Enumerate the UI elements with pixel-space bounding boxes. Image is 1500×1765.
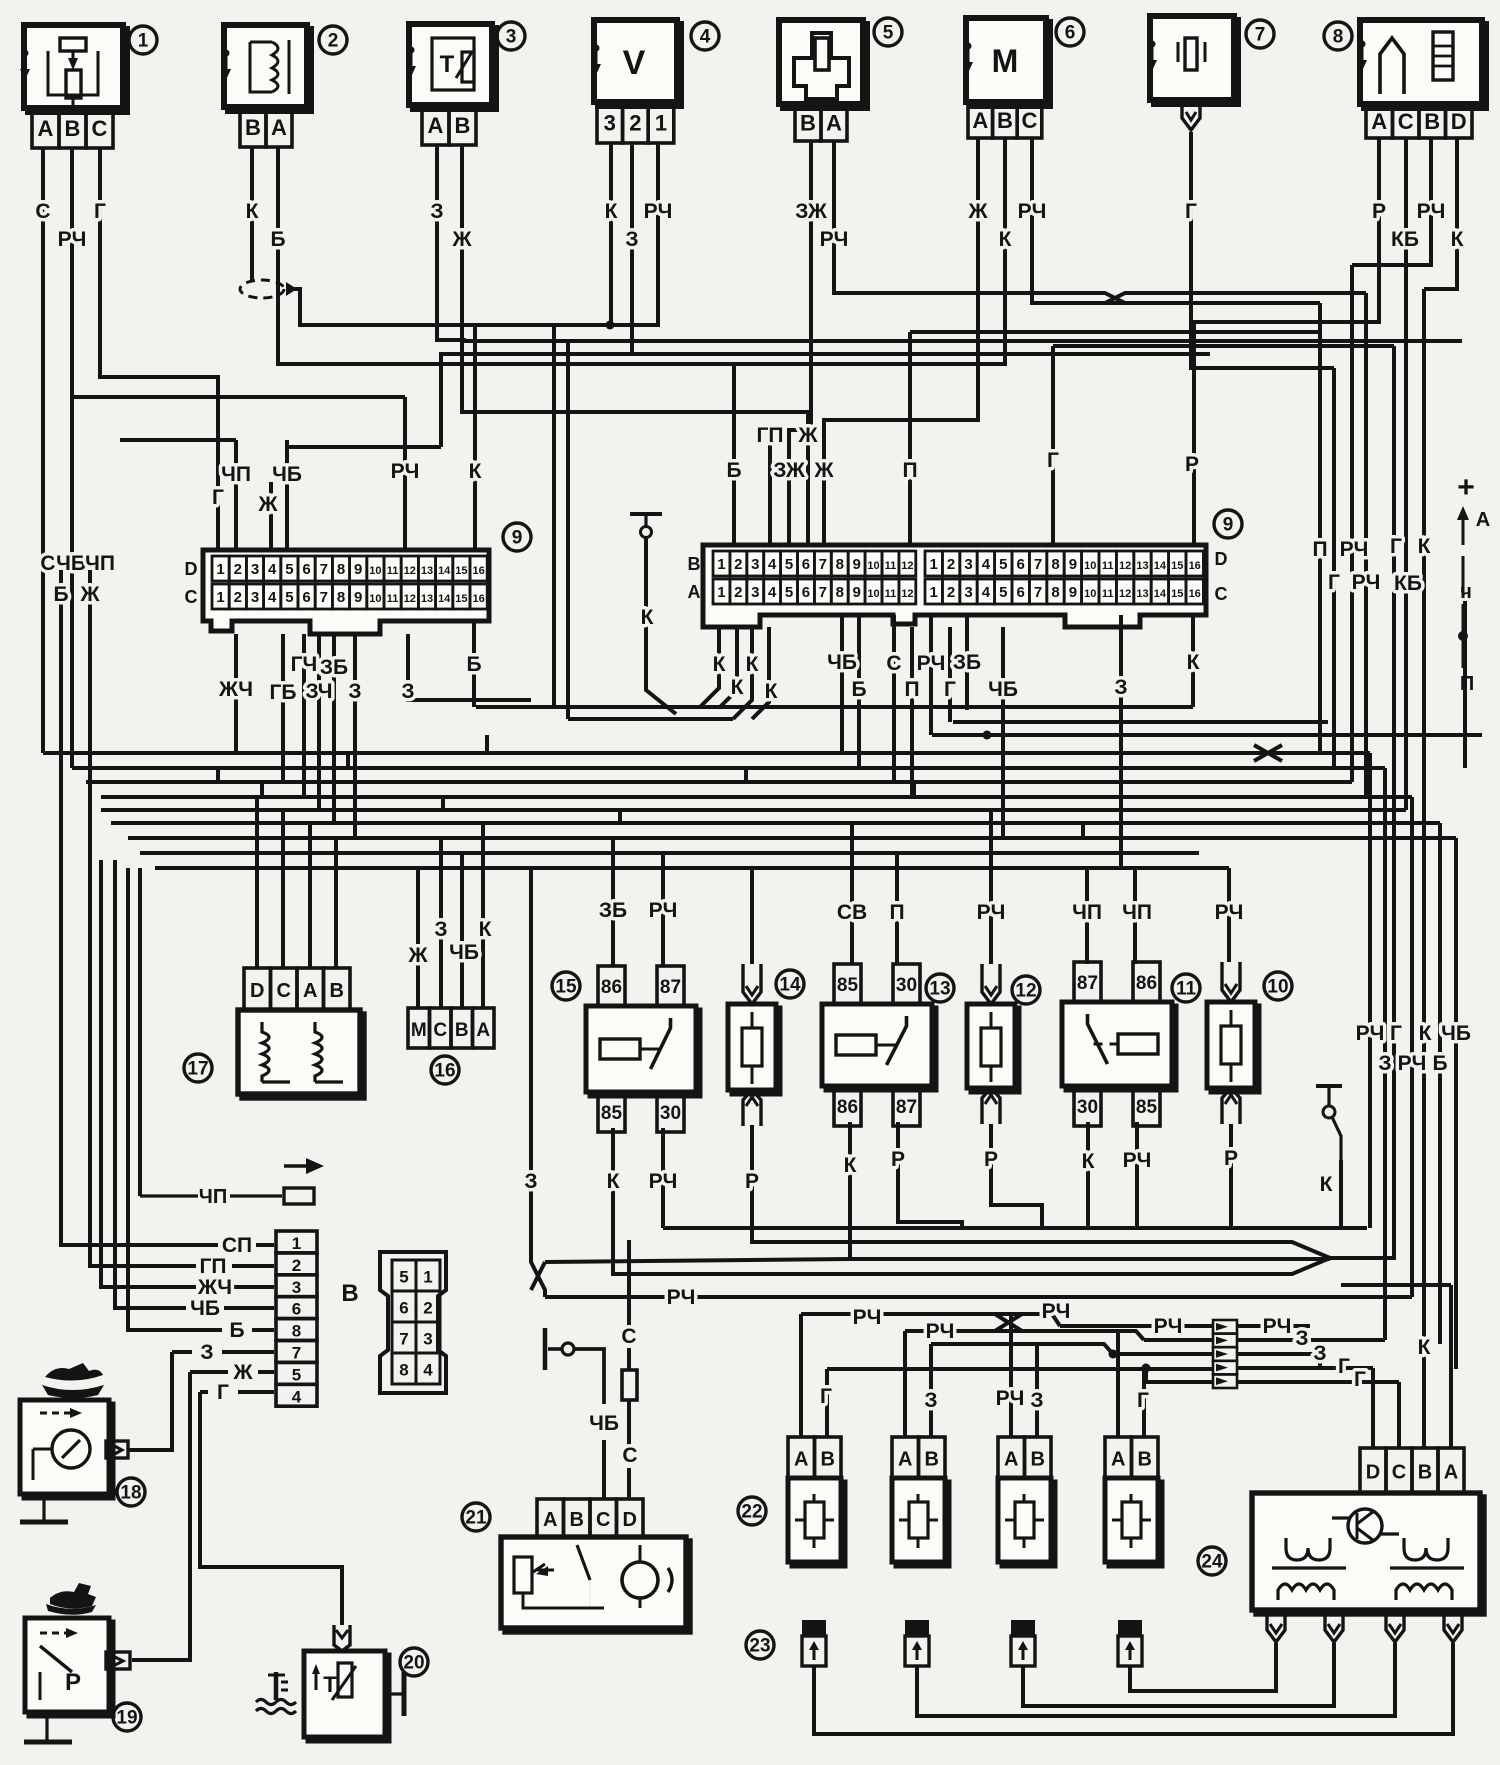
svg-text:ЧП: ЧП [85, 552, 115, 575]
svg-text:2: 2 [234, 589, 242, 606]
svg-text:87: 87 [1077, 973, 1098, 994]
svg-text:15: 15 [1171, 560, 1183, 572]
wire РЧ-l [403, 397, 407, 550]
diagnostic tap ЧП [140, 1186, 314, 1208]
svg-text:А: А [428, 113, 444, 138]
svg-text:24: 24 [1201, 1552, 1223, 1573]
wire З from 4-2 [441, 143, 632, 447]
t Кh2 [568, 717, 733, 721]
svg-text:11: 11 [1176, 979, 1197, 1000]
svg-text:Ж: Ж [452, 228, 473, 251]
svg-text:А: А [1111, 1449, 1125, 1471]
v РЧ lower2 [1410, 797, 1414, 1297]
f РЧ 10 [1227, 868, 1231, 962]
spark plug 23-2 [905, 1620, 929, 1666]
svg-text:5: 5 [292, 1365, 301, 1384]
svg-text:3: 3 [423, 1330, 432, 1349]
svg-text:17: 17 [187, 1059, 208, 1080]
jc right1 [1237, 1324, 1310, 1328]
f 16 wires [416, 868, 420, 1008]
svg-text:А: А [688, 582, 701, 602]
ground of 19 [24, 1712, 72, 1742]
svg-text:Г: Г [1338, 1355, 1350, 1378]
svg-text:Г: Г [1390, 1022, 1402, 1045]
svg-text:7: 7 [292, 1343, 301, 1362]
callout 11 [1172, 974, 1200, 1002]
sensor 3 (coolant temperature sensor) [406, 24, 496, 109]
f ЧП 11a [1085, 868, 1089, 964]
fuse above 21 [622, 1240, 637, 1499]
svg-text:8: 8 [292, 1322, 301, 1341]
svg-text:РЧ: РЧ [926, 1320, 955, 1343]
bus y797 [101, 795, 1412, 799]
svg-text:6: 6 [1017, 584, 1025, 601]
ground of 18 [20, 1494, 68, 1522]
svg-text:Г: Г [94, 200, 106, 223]
svg-text:15: 15 [1171, 588, 1183, 600]
b 14 [752, 1125, 1330, 1258]
svg-text:2: 2 [292, 1256, 301, 1275]
v center 568 [566, 341, 570, 719]
svg-text:6: 6 [1065, 23, 1076, 44]
svg-text:РЧ: РЧ [58, 228, 87, 251]
svg-text:ГП: ГП [200, 1255, 227, 1278]
bus y341 [466, 340, 1462, 341]
ignition switch feed (К) [630, 514, 662, 614]
c24 B [1422, 1347, 1426, 1448]
lv 89b [128, 868, 222, 1330]
t ЧБ3 [1001, 627, 1005, 838]
svg-text:14: 14 [779, 975, 801, 996]
svg-text:14: 14 [438, 593, 451, 605]
connector pins of sensor 4 [597, 102, 674, 143]
svg-text:4: 4 [700, 27, 711, 48]
svg-text:К: К [1418, 1336, 1431, 1359]
crossover X mid band [1254, 745, 1282, 761]
flow arrow [284, 1158, 324, 1174]
svg-text:К: К [1082, 1150, 1095, 1173]
bus y768 [72, 766, 1385, 770]
svg-text:8: 8 [337, 561, 345, 578]
step j [346, 753, 350, 768]
svg-text:ГБ: ГБ [270, 681, 297, 704]
callout 17 [184, 1054, 212, 1082]
svg-text:85: 85 [837, 975, 859, 996]
wire ГП [768, 435, 772, 545]
svg-text:Б: Б [851, 678, 866, 701]
connector 8-pin (В) [380, 1252, 446, 1393]
f 16 w4 [481, 823, 485, 1008]
wire Ж-l [269, 482, 273, 550]
t К2 [733, 627, 752, 719]
svg-text:РЧ: РЧ [1352, 571, 1381, 594]
svg-text:4: 4 [423, 1361, 433, 1380]
fuse 10 [1207, 962, 1259, 1124]
h К left [545, 1259, 850, 1262]
svg-text:9: 9 [1069, 556, 1077, 573]
svg-text:З: З [1378, 1052, 1391, 1075]
svg-text:К: К [479, 918, 492, 941]
step h [1081, 823, 1085, 838]
svg-text:СП: СП [222, 1234, 252, 1257]
svg-text:10: 10 [867, 588, 879, 600]
svg-text:РЧ: РЧ [644, 200, 673, 223]
lv strip Ж [190, 1370, 228, 1374]
svg-text:7: 7 [1034, 556, 1042, 573]
svg-text:А: А [1476, 509, 1490, 531]
svg-text:В: В [341, 1280, 358, 1307]
connector pins of device 8 [1366, 104, 1472, 138]
svg-text:D: D [1451, 109, 1467, 134]
svg-text:V: V [623, 44, 646, 82]
svg-text:ЖЧ: ЖЧ [218, 678, 253, 701]
svg-text:Г: Г [1137, 1389, 1149, 1412]
svg-text:З: З [924, 1389, 937, 1412]
svg-text:С: С [596, 1509, 610, 1531]
t К3 [1191, 615, 1195, 707]
svg-text:С: С [1392, 1462, 1406, 1484]
svg-text:РЧ: РЧ [1398, 1052, 1427, 1075]
svg-text:ГП: ГП [757, 424, 784, 447]
lv 63c [234, 1285, 274, 1289]
step f [744, 768, 748, 782]
jc left2 [1144, 1338, 1213, 1342]
svg-text:7: 7 [1255, 25, 1266, 46]
svg-text:11: 11 [387, 565, 399, 577]
spark plug 23-4 [1118, 1620, 1142, 1666]
svg-text:23: 23 [749, 1636, 770, 1657]
svg-text:8: 8 [399, 1361, 408, 1380]
svg-text:К: К [1419, 1022, 1432, 1045]
svg-text:5: 5 [399, 1268, 408, 1287]
svg-text:РЧ: РЧ [391, 460, 420, 483]
throttle unit 21 [501, 1499, 690, 1632]
injector connector 22-4 [1105, 1437, 1162, 1566]
step c [260, 782, 264, 797]
lv 76c [224, 1306, 274, 1310]
wire h346 [1053, 344, 1394, 348]
svg-text:З: З [1295, 1327, 1308, 1350]
svg-text:РЧ: РЧ [649, 899, 678, 922]
svg-text:К: К [1187, 651, 1200, 674]
svg-text:К: К [607, 1170, 620, 1193]
svg-text:ЧБ: ЧБ [827, 651, 857, 674]
svg-text:87: 87 [896, 1097, 917, 1118]
svg-text:+: + [1457, 471, 1475, 504]
callout 5 [874, 18, 902, 46]
f ЧП 11b [1133, 868, 1137, 964]
injector connector 22-2 [892, 1437, 949, 1566]
svg-text:К: К [731, 676, 744, 699]
inj bus3 [931, 1344, 1213, 1354]
svg-text:РЧ: РЧ [667, 1286, 696, 1309]
step b [216, 768, 220, 782]
svg-text:В: В [570, 1509, 584, 1531]
svg-text:1: 1 [138, 31, 149, 52]
sp2 [917, 1643, 1395, 1716]
connector pins of sensor 5 [795, 104, 847, 141]
sensor 2 (crankshaft position sensor) [221, 25, 311, 111]
callout 24 [1198, 1547, 1226, 1575]
ECU connector block 9 (right) [688, 545, 1228, 627]
svg-text:С: С [185, 587, 198, 607]
v Б lower [1438, 823, 1442, 1344]
wire РЧ from 5А [834, 141, 1105, 293]
svg-text:13: 13 [1136, 560, 1148, 572]
svg-text:4: 4 [768, 584, 777, 601]
svg-text:А: А [1004, 1449, 1018, 1471]
svg-text:7: 7 [819, 584, 827, 601]
svg-text:Б: Б [53, 583, 68, 606]
svg-text:РЧ: РЧ [1018, 200, 1047, 223]
svg-text:8: 8 [337, 589, 345, 606]
svg-text:С: С [886, 652, 901, 675]
v center 554 [552, 325, 556, 707]
svg-text:30: 30 [896, 975, 917, 996]
f 17 C [281, 810, 285, 968]
spark plug 23-3 [1011, 1620, 1035, 1666]
wire КБ from 8С [1404, 138, 1408, 810]
sensor 4 (vehicle speed sensor) [591, 20, 681, 106]
connector 16 pins [408, 1008, 494, 1048]
inj v2b [929, 1344, 933, 1437]
bus y810 [101, 808, 1406, 812]
svg-text:В: В [688, 554, 701, 574]
svg-text:7: 7 [320, 589, 328, 606]
inj v1a [799, 1314, 803, 1437]
svg-text:7: 7 [1034, 584, 1042, 601]
svg-text:З: З [524, 1170, 537, 1193]
svg-text:Г: Г [1185, 200, 1197, 223]
svg-text:З: З [1114, 676, 1127, 699]
wire РЧ-l2 [72, 395, 405, 399]
svg-text:К: К [765, 680, 778, 703]
wire РЧ from 6С [1032, 138, 1125, 303]
svg-text:З: З [625, 228, 638, 251]
v З crossing [531, 1262, 545, 1290]
v К r [1422, 289, 1426, 1347]
svg-text:1: 1 [216, 561, 224, 578]
svg-text:Р: Р [984, 1148, 998, 1171]
svg-text:8: 8 [1333, 27, 1344, 48]
c24 A [1449, 1285, 1453, 1448]
t Г2 [948, 627, 952, 722]
lv 89c [252, 1328, 274, 1332]
svg-text:7: 7 [819, 556, 827, 573]
wire Ж from 6А [824, 138, 978, 545]
svg-text:85: 85 [1136, 1097, 1158, 1118]
lower h1228 [663, 1226, 1367, 1230]
svg-text:ЧБ: ЧБ [272, 463, 302, 486]
lower РЧ bus [545, 1295, 1412, 1299]
svg-text:В: В [1031, 1449, 1045, 1471]
svg-text:В: В [1424, 109, 1440, 134]
svg-text:Р: Р [1185, 453, 1199, 476]
svg-text:ЧБ: ЧБ [56, 552, 86, 575]
jc right5 [1237, 1380, 1399, 1384]
b switch [1339, 1160, 1343, 1228]
svg-text:В: В [245, 115, 261, 140]
svg-text:К: К [713, 653, 726, 676]
svg-text:К: К [469, 460, 482, 483]
lv strip Г2 [238, 1390, 274, 1394]
bus y782 [86, 780, 1352, 784]
svg-text:С: С [40, 552, 55, 575]
f СВ 13 [850, 823, 854, 964]
bus y735 [932, 733, 1482, 737]
svg-text:3: 3 [964, 556, 972, 573]
svg-text:РЧ: РЧ [996, 1387, 1025, 1410]
ground of 20 [385, 1672, 404, 1716]
lv strip З2 [222, 1350, 274, 1354]
step g [912, 782, 916, 797]
jc right3 [1237, 1354, 1320, 1369]
fuse 12 [967, 964, 1019, 1124]
svg-text:З: З [1313, 1342, 1326, 1365]
svg-text:16: 16 [1189, 588, 1201, 600]
bus y722 [953, 720, 1328, 724]
svg-text:2: 2 [734, 584, 742, 601]
svg-text:РЧ: РЧ [820, 228, 849, 251]
svg-text:Ж: Ж [968, 200, 989, 223]
svg-text:30: 30 [660, 1103, 681, 1124]
svg-text:11: 11 [885, 588, 897, 600]
injector connector 22-1 [788, 1437, 845, 1566]
svg-text:Г: Г [1328, 571, 1340, 594]
callout 6 [1056, 18, 1084, 46]
inj bus4 [827, 1367, 1213, 1371]
svg-text:7: 7 [399, 1330, 408, 1349]
callout 14 [776, 970, 804, 998]
v З left of 15 [531, 868, 545, 1297]
svg-text:ЗБ: ЗБ [599, 899, 627, 922]
svg-text:18: 18 [120, 1483, 141, 1504]
svg-text:А: А [476, 1020, 490, 1041]
wire К from 4-3 [475, 143, 611, 550]
svg-text:РЧ: РЧ [1154, 1315, 1183, 1338]
svg-text:З: З [434, 918, 447, 941]
svg-text:5: 5 [999, 556, 1007, 573]
svg-text:5: 5 [785, 556, 793, 573]
svg-text:4: 4 [982, 556, 991, 573]
svg-text:14: 14 [1154, 588, 1167, 600]
svg-text:10: 10 [1084, 560, 1096, 572]
svg-text:М: М [992, 43, 1019, 79]
svg-text:К: К [746, 653, 759, 676]
injector connector 22-3 [998, 1437, 1055, 1566]
svg-text:2: 2 [629, 111, 641, 136]
svg-text:ЧБ: ЧБ [1441, 1022, 1471, 1045]
lv 102b [138, 868, 142, 1196]
svg-text:8: 8 [1051, 556, 1059, 573]
step a [485, 735, 489, 753]
v РЧ r [1350, 265, 1354, 782]
t ГЧ [302, 634, 306, 797]
connector pins of sensor 2 [240, 107, 292, 147]
svg-text:С: С [1398, 109, 1414, 134]
t З2 [408, 634, 531, 700]
svg-text:12: 12 [404, 593, 416, 605]
lv 90 [90, 570, 196, 1266]
svg-text:5: 5 [883, 23, 894, 44]
svg-text:16: 16 [1189, 560, 1201, 572]
svg-text:К: К [999, 228, 1012, 251]
svg-text:РЧ: РЧ [1417, 200, 1446, 223]
svg-text:К: К [1451, 228, 1464, 251]
callout 2 [319, 26, 347, 54]
callout 10 [1264, 972, 1292, 1000]
svg-text:30: 30 [1077, 1097, 1098, 1118]
svg-text:4: 4 [268, 589, 277, 606]
c24 C [1397, 1382, 1401, 1448]
svg-text:З: З [200, 1341, 213, 1364]
callout 12 [1012, 976, 1040, 1004]
callout 16 [431, 1056, 459, 1084]
icon above 19 [46, 1583, 96, 1615]
svg-text:М: М [411, 1020, 427, 1041]
svg-text:A: A [38, 116, 54, 141]
svg-text:Г: Г [1354, 1368, 1366, 1391]
wire C from 1A [41, 148, 45, 753]
svg-text:Б: Б [229, 1319, 244, 1342]
svg-text:D: D [1366, 1462, 1380, 1484]
svg-text:Ж: Ж [814, 459, 835, 482]
b 13-86 [850, 1122, 1330, 1259]
svg-text:ЗЖ: ЗЖ [795, 200, 828, 223]
svg-text:Ж: Ж [233, 1361, 254, 1384]
b 15-30 [661, 1128, 665, 1228]
inj v3a [1009, 1314, 1013, 1437]
junction connector (5-way) [1213, 1320, 1237, 1388]
bus y853 [140, 851, 1199, 855]
svg-text:РЧ: РЧ [1263, 1315, 1292, 1338]
svg-text:85: 85 [601, 1103, 623, 1124]
lv 90b [232, 1264, 274, 1268]
b 13-87 [898, 1122, 962, 1228]
svg-text:В: В [925, 1449, 939, 1471]
shielded joint [240, 280, 297, 298]
svg-text:2: 2 [947, 556, 955, 573]
svg-text:5: 5 [999, 584, 1007, 601]
svg-text:РЧ: РЧ [649, 1170, 678, 1193]
t Б2 [857, 615, 861, 768]
t С2 [892, 615, 896, 782]
callout 3 [497, 22, 525, 50]
wire ЧП feed [120, 438, 236, 442]
svg-text:Ж: Ж [798, 424, 819, 447]
v ЧБ lower [1454, 838, 1458, 1369]
svg-text:3: 3 [964, 584, 972, 601]
svg-text:14: 14 [438, 565, 451, 577]
svg-text:13: 13 [1136, 588, 1148, 600]
b 10 [1229, 1124, 1233, 1228]
f 17 B [334, 838, 338, 968]
svg-text:С: С [277, 980, 291, 1002]
inj v4b [1142, 1369, 1146, 1437]
svg-text:8: 8 [1051, 584, 1059, 601]
svg-text:9: 9 [354, 561, 362, 578]
svg-text:ЗБ: ЗБ [320, 656, 348, 679]
crossover X injector bus [995, 1314, 1022, 1331]
svg-text:ЧП: ЧП [221, 463, 251, 486]
svg-text:Г: Г [217, 1381, 229, 1404]
actuator 6 (idle air motor) [963, 18, 1050, 106]
svg-text:А: А [1371, 109, 1387, 134]
svg-text:С: С [433, 1020, 447, 1041]
svg-text:3: 3 [604, 111, 616, 136]
f 17 A [308, 823, 312, 968]
svg-text:С: С [1215, 584, 1228, 604]
